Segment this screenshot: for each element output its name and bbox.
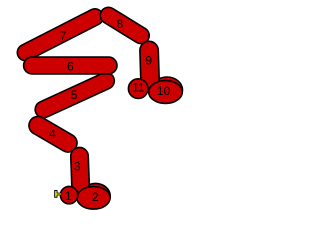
capsule 6 [24,57,117,74]
circle 1 [60,186,77,203]
svg-text:9: 9 [145,53,152,67]
svg-text:10: 10 [157,84,171,98]
svg-text:5: 5 [71,88,78,102]
svg-text:1: 1 [65,189,72,203]
capsule 4 [26,113,81,155]
svg-text:7: 7 [60,29,67,43]
svg-text:3: 3 [74,160,81,174]
svg-text:11: 11 [132,81,145,95]
capsule 7 [14,6,106,64]
svg-text:8: 8 [117,17,124,31]
ellipse 10 front (foot) [149,81,183,104]
yellow arrow marker [55,191,61,197]
yellow arrow marker outline [54,190,61,198]
capsule 5 [32,70,117,121]
svg-text:6: 6 [67,60,74,74]
capsule 8 [97,4,152,47]
circle 11 [128,79,148,99]
ellipse 10 back (toe) [152,77,183,103]
svg-text:2: 2 [92,190,99,204]
capsule 9 [140,41,160,89]
capsule 3 [70,147,89,193]
ellipse 2 front (foot) [77,187,110,210]
svg-text:4: 4 [49,127,56,141]
ellipse 2 back (toe) [81,183,110,208]
